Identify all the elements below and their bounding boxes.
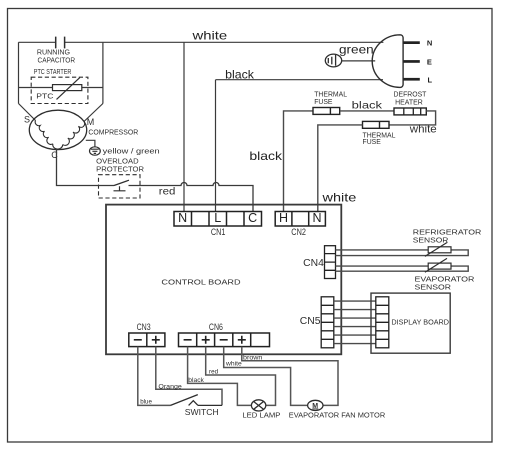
svg-text:OVERLOAD: OVERLOAD (96, 159, 138, 166)
wire black fuse1 to heater (340, 110, 394, 112)
motor M1 compressor (29, 110, 86, 149)
pin N (427, 38, 432, 47)
label black (lamp wire) (188, 377, 204, 384)
label DEFROST HEATER (394, 92, 428, 107)
svg-text:blue: blue (140, 399, 152, 406)
svg-text:EVAPORATOR FAN MOTOR: EVAPORATOR FAN MOTOR (289, 413, 385, 420)
label REFRIGERATOR SENSOR (413, 228, 482, 245)
svg-text:DISPLAY BOARD: DISPLAY BOARD (391, 317, 449, 326)
svg-text:CN3: CN3 (137, 322, 151, 332)
svg-text:DEFROST: DEFROST (394, 92, 428, 99)
overload protector dashed box (99, 175, 141, 198)
wire evaporator sensor loop (336, 266, 469, 271)
label brown (243, 354, 263, 361)
svg-text:LED LAMP: LED LAMP (242, 413, 280, 420)
label CN2 (291, 227, 306, 237)
wire red: compressor C to CN1-C (57, 149, 254, 212)
wire white main top (19, 41, 384, 43)
svg-text:white: white (321, 190, 356, 204)
connector CN6 (179, 333, 270, 347)
svg-text:FUSE: FUSE (314, 99, 333, 106)
svg-text:E: E (427, 58, 432, 67)
label EVAPORATOR SENSOR (415, 275, 475, 292)
pin S (24, 115, 30, 125)
label LED LAMP (242, 413, 280, 420)
plug prong N (404, 41, 420, 44)
wire brown CN6-4 to fan (242, 347, 338, 406)
svg-text:CAPACITOR: CAPACITOR (38, 58, 76, 65)
svg-text:yellow / green: yellow / green (103, 148, 160, 155)
pin minus CN6-3 (220, 339, 228, 341)
wire black CN6-1 to LED (188, 347, 252, 406)
pin minus CN3 (134, 339, 142, 341)
label green (339, 42, 374, 56)
pin L (428, 75, 433, 84)
label THERMAL FUSE 1 (314, 92, 347, 107)
svg-text:N: N (178, 211, 187, 225)
capacitor C1 running capacitor (56, 37, 65, 49)
wire black top (216, 80, 384, 212)
svg-text:CN4: CN4 (303, 258, 324, 269)
pin M (87, 117, 95, 127)
label Orange (158, 383, 182, 390)
svg-text:SENSOR: SENSOR (413, 236, 449, 245)
plug prong E (404, 60, 420, 63)
lamp LED (251, 400, 265, 411)
svg-text:CN6: CN6 (209, 322, 223, 332)
svg-text:red: red (159, 186, 176, 197)
label M in fan (312, 403, 318, 410)
pin H (279, 211, 288, 225)
label white (fan wire) (225, 361, 242, 368)
switch S1 (171, 395, 223, 406)
fuse F2 thermal fuse (363, 121, 390, 128)
label white (CN2-N wire) (321, 190, 356, 204)
svg-text:HEATER: HEATER (395, 99, 423, 106)
plug P1 (372, 35, 403, 88)
pin plus CN6-2 (202, 336, 210, 344)
label OVERLOAD PROTECTOR (96, 159, 144, 174)
label black (CN2-H wire) (249, 149, 283, 163)
svg-text:C: C (248, 211, 257, 225)
wire compressor case to earth (86, 140, 95, 147)
svg-text:SWITCH: SWITCH (185, 407, 219, 417)
svg-text:CONTROL BOARD: CONTROL BOARD (161, 277, 240, 286)
svg-text:SENSOR: SENSOR (415, 282, 452, 291)
svg-text:N: N (312, 211, 321, 225)
label white (top wire) (191, 29, 227, 43)
label CN5 (300, 316, 321, 327)
wire orange CN3-2 to switch (156, 347, 222, 406)
svg-text:M: M (87, 117, 95, 127)
label white (heater wire) (409, 123, 437, 135)
resistor PTC (53, 78, 82, 100)
ground earth symbol yellow/green (90, 147, 101, 155)
thermistor evaporator sensor (425, 258, 451, 272)
svg-text:FUSE: FUSE (363, 139, 382, 146)
wire white drop to CN1-N (183, 42, 185, 211)
wire fuse2 to CN2-N (318, 125, 363, 212)
svg-text:H: H (279, 211, 288, 225)
pin C (51, 150, 58, 160)
label CN4 (303, 258, 324, 269)
label CN6 (209, 322, 223, 332)
svg-text:green: green (339, 42, 374, 56)
display board (371, 293, 450, 353)
svg-text:black: black (188, 377, 204, 384)
svg-text:PTC: PTC (36, 93, 53, 100)
wire CN5 to display ribbon (334, 301, 376, 344)
svg-text:N: N (427, 38, 432, 47)
label black (top wire) (225, 67, 255, 81)
wire red CN6-2 to LED (206, 347, 276, 406)
wire white CN6-3 to fan (224, 347, 308, 406)
connector CN1 (174, 212, 262, 227)
svg-text:PROTECTOR: PROTECTOR (96, 166, 144, 173)
label yellow / green (103, 148, 160, 155)
wire compressor parallel branch (19, 42, 103, 121)
svg-text:CN1: CN1 (211, 227, 226, 237)
svg-text:RUNNING: RUNNING (37, 49, 70, 56)
pin plus CN3 (152, 336, 160, 344)
pin N (312, 211, 321, 225)
connector CN4 (325, 246, 336, 279)
svg-text:brown: brown (243, 354, 263, 361)
connector CN3 (129, 333, 165, 347)
svg-text:L: L (428, 75, 433, 84)
label CONTROL BOARD (161, 277, 240, 286)
wire green to plug (342, 60, 376, 62)
svg-text:S: S (24, 115, 30, 125)
ground green earth symbol at plug (325, 54, 341, 67)
svg-text:CN5: CN5 (300, 316, 321, 327)
PTC starter dashed box (31, 77, 88, 103)
connector CN5 (321, 297, 334, 348)
pin N (178, 211, 187, 225)
fuse F1 thermal fuse (313, 108, 340, 115)
compressor windings (35, 121, 85, 150)
overload switch blade (114, 180, 130, 191)
svg-text:C: C (51, 150, 58, 160)
label black (fuse wire) (352, 101, 384, 112)
connector display board header (376, 297, 389, 348)
label COMPRESSOR (88, 129, 138, 136)
svg-text:black: black (225, 67, 255, 81)
label blue (140, 399, 152, 406)
label DISPLAY BOARD (391, 317, 449, 326)
svg-text:L: L (214, 211, 221, 225)
label EVAPORATOR FAN MOTOR (289, 413, 385, 420)
connector CN2 (275, 212, 325, 227)
wire CN2-H to thermal fuse 1 (284, 111, 314, 212)
svg-text:THERMAL: THERMAL (314, 92, 347, 99)
label SWITCH (185, 407, 219, 417)
label red (lamp wire) (209, 368, 218, 375)
pin L (214, 211, 221, 225)
label PTC STARTER (34, 69, 72, 76)
pin E (427, 58, 432, 67)
pin C (248, 211, 257, 225)
svg-text:white: white (409, 123, 437, 135)
svg-text:red: red (209, 368, 218, 375)
label CN1 (211, 227, 226, 237)
thermistor refrigerator sensor (425, 243, 451, 257)
svg-text:black: black (352, 101, 384, 112)
svg-text:COMPRESSOR: COMPRESSOR (88, 129, 138, 136)
svg-text:white: white (225, 361, 242, 368)
svg-text:Orange: Orange (158, 383, 182, 390)
pin minus CN6-1 (184, 339, 192, 341)
resistor defrost heater (394, 108, 426, 115)
svg-text:CN2: CN2 (291, 227, 306, 237)
svg-text:black: black (249, 149, 283, 163)
label RUNNING CAPACITOR (37, 49, 75, 64)
control board (106, 205, 341, 355)
pin plus CN6-4 (238, 336, 246, 344)
motor evaporator fan (308, 400, 323, 410)
plug prong L (404, 78, 420, 81)
label THERMAL FUSE 2 (363, 133, 396, 146)
wire blue CN3-1 to switch (138, 347, 171, 406)
svg-text:white: white (191, 29, 227, 43)
wire heater to thermal fuse 2 (389, 111, 436, 125)
svg-text:PTC STARTER: PTC STARTER (34, 69, 72, 76)
label red (159, 186, 176, 197)
label PTC (36, 93, 53, 100)
wire refrigerator sensor loop (336, 250, 469, 256)
label CN3 (137, 322, 151, 332)
